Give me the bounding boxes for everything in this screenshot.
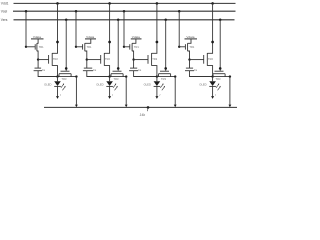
wire: storage node down to capacitor CS, cell 4 [189,60,191,69]
transistor TR3 channel, cell 4 [213,73,225,75]
svg-text:Vers: Vers [1,18,8,22]
wire: anode node line to right column, cell 4 [213,76,230,78]
arrow: connection into cathode bus, cell 1 [75,105,78,108]
wire: tap stem down to TR1 drain, cell 3 [132,39,136,43]
wire: right column down to cathode bus, cell 2 [125,77,127,105]
node: storage node dot, cell 1 [37,58,39,60]
wire: tap stem down to TR1 drain, cell 2 [85,39,91,43]
wire: TR2 drain up to VDD bus, cell 1 [52,3,57,53]
capacitor CS top plate, cell 3 [130,67,137,69]
diode OLED cathode bar, cell 1 [54,85,61,87]
node: VDD column tie dot, cell 2 [108,41,111,44]
svg-text:TR2: TR2 [53,57,58,61]
transistor TR1 channel, cell 3 [131,43,133,51]
wire: capacitor bottom to anode node, cell 3 [134,71,157,77]
svg-text:TR1: TR1 [87,45,92,49]
transistor TR2 channel, cell 2 [103,53,105,66]
wire: select line drop to TR1 gate, cell 2 [75,11,77,47]
wire: storage node down to capacitor CS, cell 2 [86,60,88,69]
node: VDD bus junction dot, cell 1 [56,2,59,5]
node: TR3 gate dot, cell 1 [65,67,68,70]
wire: TR3 drain lead, cell 3 [170,74,172,77]
wire: TR1 gate lead, cell 3 [124,46,130,48]
wire: tap stem down to TR1 drain, cell 1 [37,39,38,43]
node: OLED anode junction dot, cell 3 [156,75,158,77]
wire: TR1 source down to storage node, cell 4 [188,51,190,60]
svg-text:TR1: TR1 [134,45,139,49]
node: VDD bus junction dot, cell 2 [108,2,111,5]
arrow: OLED current arrowhead, cell 1 [56,96,59,99]
svg-text:TR2: TR2 [152,57,157,61]
wire: select bus (second horizontal rail) [13,10,236,12]
node: TR3 gate dot, cell 3 [164,67,167,70]
wire: capacitor bottom to anode node, cell 1 [38,71,57,77]
wire: reference leader tick [147,107,149,111]
transistor TR1 gate plate, cell 1 [34,44,36,49]
wire: select line drop to TR1 gate, cell 4 [178,11,180,47]
wire: TR1 source down to storage node, cell 3 [132,51,134,60]
node: VDD column tie dot, cell 1 [56,41,59,44]
wire: TR2 source down to OLED anode, cell 4 [207,66,212,77]
node: VDD bus junction dot, cell 3 [156,2,159,5]
node: VDD bus junction dot, cell 4 [211,2,214,5]
svg-text:Vdata: Vdata [186,35,194,39]
node: data tap terminal bar, cell 4 [185,38,198,40]
transistor TR2 channel, cell 3 [151,53,153,66]
capacitor CS bottom plate, cell 1 [34,70,42,72]
node: erase bus junction dot, cell 3 [164,19,167,22]
svg-text:OLED: OLED [199,82,206,86]
node: select-bus junction dot, cell 2 [75,10,78,13]
wire: OLED anode stem, cell 3 [156,77,158,82]
arrow: OLED current arrowhead, cell 4 [211,96,214,99]
node: TR1 gate node dot, cell 3 [123,46,125,48]
node: OLED anode junction dot, cell 2 [108,75,110,77]
wire: TR2 drain up to VDD bus, cell 2 [104,3,109,53]
wire: TR3 source lead, cell 3 [158,74,160,77]
node: erase bus junction dot, cell 2 [117,19,120,22]
wire: storage node to TR2 gate, cell 3 [134,59,148,61]
node: VDD column tie dot, cell 3 [156,41,159,44]
node: data tap terminal bar, cell 3 [131,38,142,40]
wire: erase line drop to TR3 gate, cell 3 [165,20,167,71]
svg-text:TR2: TR2 [208,57,213,61]
wire: TR2 drain up to VDD bus, cell 4 [207,3,212,53]
arrow: OLED light emission arrow 2, cell 2 [115,87,118,91]
wire: OLED cathode stem, cell 3 [156,87,158,97]
wire: TR3 source lead, cell 2 [110,74,112,77]
wire: TR3 drain lead, cell 4 [224,74,226,77]
wire: TR1 gate lead, cell 2 [76,46,83,48]
svg-text:14b: 14b [140,113,146,117]
transistor TR3 gate plate, cell 2 [113,70,122,72]
wire: storage node to TR2 gate, cell 1 [38,59,49,61]
wire: OLED cathode stem, cell 4 [212,87,214,97]
transistor TR2 channel, cell 4 [206,53,208,66]
transistor TR1 channel, cell 4 [187,43,189,51]
diode OLED (triangle), cell 1 [54,81,61,86]
diode OLED (triangle), cell 2 [106,81,113,86]
node: data tap terminal bar, cell 2 [85,38,96,40]
node: data tap terminal bar, cell 1 [31,38,44,40]
wire: storage node down to capacitor CS, cell 1 [37,60,39,69]
svg-text:Vdata: Vdata [33,35,41,39]
wire: TR1 source down to storage node, cell 1 [37,51,38,60]
svg-text:TR3: TR3 [216,77,221,81]
arrow: OLED current arrowhead, cell 3 [155,96,158,99]
svg-text:TR1: TR1 [189,45,194,49]
node: TR1 gate node dot, cell 1 [25,46,27,48]
diode OLED cathode bar, cell 3 [154,85,161,87]
arrow: OLED light emission arrow 2, cell 1 [62,87,65,91]
wire: OLED cathode stem, cell 2 [109,87,111,97]
wire: capacitor bottom to anode node, cell 2 [87,71,110,77]
wire: TR3 drain lead, cell 1 [70,74,72,77]
node: erase bus junction dot, cell 1 [65,19,68,22]
svg-text:Vdd1: Vdd1 [1,2,9,6]
node: storage node dot, cell 4 [188,58,190,60]
transistor TR2 gate plate, cell 1 [48,55,50,64]
wire: OLED anode stem, cell 2 [109,77,111,82]
capacitor CS bottom plate, cell 3 [129,70,138,72]
arrow: OLED light emission arrow 1, cell 1 [61,84,64,88]
transistor TR1 channel, cell 1 [36,43,38,51]
transistor TR3 gate plate, cell 3 [160,70,169,72]
wire: TR1 source down to storage node, cell 2 [85,51,87,60]
transistor TR2 gate plate, cell 3 [147,55,149,64]
svg-text:TR1: TR1 [39,45,44,49]
transistor TR1 gate plate, cell 4 [184,44,186,49]
wire: anode node line to right column, cell 1 [58,76,77,78]
node: right column junction dot, cell 4 [229,75,231,77]
wire: erase line drop to TR3 gate, cell 2 [117,20,119,71]
wire: TR3 drain lead, cell 2 [122,74,124,77]
wire: storage node to TR2 gate, cell 2 [87,59,101,61]
node: right column junction dot, cell 3 [174,75,176,77]
wire: capacitor bottom to anode node, cell 4 [190,71,213,77]
arrow: OLED light emission arrow 1, cell 4 [216,84,219,88]
transistor TR2 gate plate, cell 4 [203,55,205,64]
transistor TR3 channel, cell 2 [111,73,123,75]
arrow: OLED current arrowhead, cell 2 [108,96,111,99]
svg-text:OLED: OLED [144,82,151,86]
svg-text:Vdata: Vdata [86,35,94,39]
svg-text:Vdata: Vdata [132,35,140,39]
node: storage node dot, cell 3 [132,58,134,60]
diode OLED cathode bar, cell 4 [209,85,216,87]
node: select-bus junction dot, cell 1 [25,10,28,13]
svg-text:TR3: TR3 [161,77,166,81]
svg-text:TR2: TR2 [105,57,110,61]
wire: TR1 gate lead, cell 1 [26,46,35,48]
wire: storage node down to capacitor CS, cell 3 [133,60,135,69]
wire: TR2 source down to OLED anode, cell 1 [52,66,57,77]
wire: erase line drop to TR3 gate, cell 4 [219,20,221,71]
wire: TR2 source down to OLED anode, cell 3 [152,66,157,77]
arrow: connection into cathode bus, cell 3 [174,105,177,108]
transistor TR3 gate plate, cell 4 [215,70,224,72]
arrow: OLED light emission arrow 1, cell 3 [160,84,163,88]
wire: OLED anode stem, cell 4 [212,77,214,82]
svg-text:TR3: TR3 [62,77,67,81]
wire: OLED anode stem, cell 1 [57,77,59,82]
transistor TR1 gate plate, cell 2 [82,44,84,49]
wire: right column down to cathode bus, cell 3 [174,77,176,105]
transistor TR3 channel, cell 3 [159,73,171,75]
capacitor CS bottom plate, cell 4 [185,70,194,72]
wire: erase bus (third horizontal rail) [14,19,235,21]
node: TR1 gate node dot, cell 4 [178,46,180,48]
transistor TR3 gate plate, cell 1 [61,70,70,72]
wire: TR2 source down to OLED anode, cell 2 [104,66,109,77]
wire: VDD bus (top horizontal rail) [14,2,236,4]
arrow: OLED light emission arrow 2, cell 4 [218,87,221,91]
arrow: OLED light emission arrow 2, cell 3 [162,87,165,91]
diode OLED (triangle), cell 4 [209,81,216,86]
diode OLED cathode bar, cell 2 [106,85,113,87]
wire: anode node line to right column, cell 2 [110,76,127,78]
transistor TR2 channel, cell 1 [51,53,53,66]
node: select-bus junction dot, cell 4 [178,10,181,13]
transistor TR3 channel, cell 1 [59,73,71,75]
transistor TR2 gate plate, cell 2 [100,55,102,64]
transistor TR1 gate plate, cell 3 [129,44,131,49]
capacitor CS top plate, cell 2 [84,67,92,69]
wire: right column down to cathode bus, cell 1 [75,77,77,105]
node: storage node dot, cell 2 [86,58,88,60]
node: erase bus junction dot, cell 4 [219,19,222,22]
wire: TR3 source lead, cell 4 [212,74,214,77]
wire: right column down to cathode bus, cell 4 [229,77,231,105]
node: right column junction dot, cell 1 [75,75,77,77]
svg-text:OLED: OLED [96,82,103,86]
node: right column junction dot, cell 2 [125,75,127,77]
diode OLED (triangle), cell 3 [154,81,161,86]
node: TR3 gate dot, cell 4 [219,67,222,70]
node: OLED anode junction dot, cell 1 [56,75,58,77]
wire: select line drop to TR1 gate, cell 1 [25,11,27,47]
arrow: connection into cathode bus, cell 2 [125,105,128,108]
node: TR1 gate node dot, cell 2 [75,46,77,48]
arrow: OLED light emission arrow 1, cell 2 [113,84,116,88]
node: cathode bus reference dot [147,106,150,109]
wire: anode node line to right column, cell 3 [157,76,175,78]
wire: OLED cathode stem, cell 1 [57,87,59,97]
transistor TR1 channel, cell 2 [84,43,86,51]
wire: TR3 source lead, cell 1 [58,74,60,77]
arrow: connection into cathode bus, cell 4 [229,105,232,108]
wire: erase line drop to TR3 gate, cell 1 [65,20,67,71]
wire: select line drop to TR1 gate, cell 3 [123,11,125,47]
svg-text:TR3: TR3 [114,77,119,81]
svg-text:Vsel: Vsel [1,10,8,14]
node: TR3 gate dot, cell 2 [117,67,120,70]
node: select-bus junction dot, cell 3 [123,10,126,13]
capacitor CS top plate, cell 1 [35,67,42,69]
wire: tap stem down to TR1 drain, cell 4 [188,39,191,43]
node: VDD column tie dot, cell 4 [211,41,214,44]
wire: cathode return bus (bottom horizontal rail) [44,106,237,108]
wire: storage node to TR2 gate, cell 4 [190,59,204,61]
capacitor CS bottom plate, cell 2 [83,70,93,72]
capacitor CS top plate, cell 4 [186,67,193,69]
svg-text:OLED: OLED [44,82,51,86]
wire: TR2 drain up to VDD bus, cell 3 [152,3,157,53]
wire: TR1 gate lead, cell 4 [179,46,185,48]
node: OLED anode junction dot, cell 4 [211,75,213,77]
